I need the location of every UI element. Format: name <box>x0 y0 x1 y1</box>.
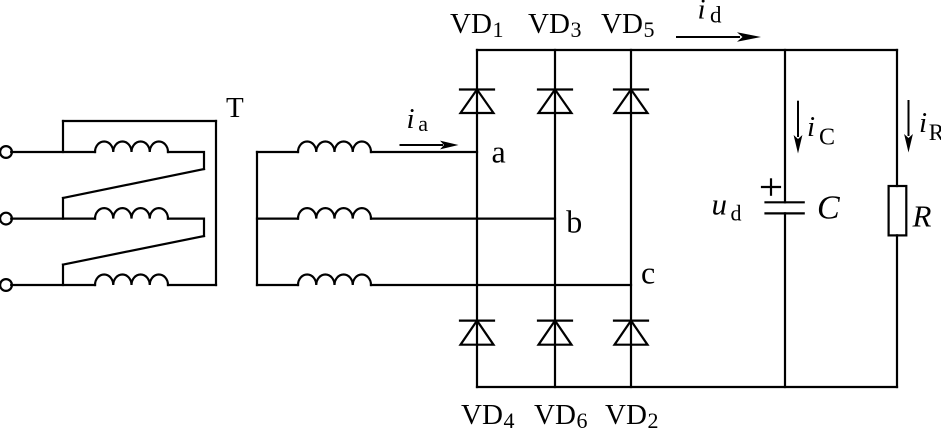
wire phase1 input <box>11 151 95 153</box>
wire phase2 input <box>11 218 95 220</box>
svg-text:VD: VD <box>605 399 647 431</box>
svg-text:C: C <box>819 125 835 151</box>
svg-text:2: 2 <box>648 408 659 432</box>
current arrow i_R <box>904 100 913 153</box>
wire phase b to node b <box>371 218 555 220</box>
svg-text:VD: VD <box>450 8 492 40</box>
secondary winding W2a <box>298 142 371 153</box>
label u_d <box>712 187 742 226</box>
label VD1 <box>450 8 504 42</box>
diode VD4 <box>460 321 494 345</box>
svg-text:u: u <box>712 187 728 222</box>
input terminal 3 <box>0 279 12 291</box>
current arrow i_a <box>400 141 459 150</box>
svg-text:VD: VD <box>534 399 576 431</box>
capacitor C plates <box>766 202 804 213</box>
wire phase3 input <box>11 284 95 286</box>
wire delta vertical 2 <box>62 265 64 285</box>
wire W1a right <box>168 152 204 169</box>
primary winding W1b <box>95 208 168 219</box>
label VD6 <box>534 399 588 432</box>
svg-text:i: i <box>698 0 706 26</box>
wire secondary row3 left <box>257 284 298 286</box>
wire secondary row1 left <box>257 151 298 153</box>
label VD3 <box>528 8 582 42</box>
diode VD2 <box>614 321 648 345</box>
label VD5 <box>601 8 655 42</box>
svg-text:d: d <box>710 2 722 27</box>
wire delta right vertical <box>215 121 217 285</box>
wire top bus <box>477 49 897 51</box>
svg-text:a: a <box>492 134 506 170</box>
svg-text:d: d <box>731 201 742 226</box>
wire W1c right <box>168 284 216 286</box>
wire phase a to node a <box>371 151 477 153</box>
label VD2 <box>605 399 659 432</box>
wire bridge leg 2 <box>554 50 556 387</box>
svg-text:VD: VD <box>528 8 570 40</box>
wire capacitor branch top <box>784 50 786 202</box>
diode VD6 <box>538 321 572 345</box>
svg-text:C: C <box>817 190 840 227</box>
current arrow i_C <box>794 101 803 154</box>
wire delta top-left vertical <box>62 121 64 152</box>
svg-text:c: c <box>641 255 655 291</box>
primary winding W1c <box>95 275 168 286</box>
capacitor plus polarity mark <box>762 179 780 194</box>
primary winding W1a <box>95 142 168 153</box>
diode VD5 <box>614 90 648 114</box>
wire delta diagonal 2 <box>63 236 204 265</box>
label i_R <box>919 107 941 145</box>
wire resistor branch bottom <box>896 235 898 387</box>
wire secondary star bus <box>256 152 258 285</box>
wire secondary row2 left <box>257 218 298 220</box>
svg-text:R: R <box>912 198 932 233</box>
wire bridge leg 3 <box>630 50 632 387</box>
wire delta vertical 1 <box>62 198 64 219</box>
svg-text:6: 6 <box>577 408 588 432</box>
input terminal 1 <box>0 146 12 158</box>
diode VD1 <box>460 90 494 114</box>
wire capacitor branch bottom <box>784 213 786 387</box>
wire phase c to node c <box>371 284 631 286</box>
wire bottom bus <box>477 386 897 388</box>
wire delta top rail <box>63 120 216 122</box>
wire delta diagonal 1 <box>63 169 204 198</box>
current arrow i_d <box>676 32 761 41</box>
label VD4 <box>461 399 515 432</box>
svg-text:VD: VD <box>461 399 503 431</box>
svg-text:R: R <box>929 120 941 145</box>
label i_a <box>407 103 429 136</box>
secondary winding W2b <box>298 208 371 219</box>
input terminal 2 <box>0 213 12 225</box>
svg-text:T: T <box>226 92 244 124</box>
wire bridge leg 1 <box>476 50 478 387</box>
svg-text:b: b <box>566 204 582 240</box>
svg-text:i: i <box>919 107 927 139</box>
wire resistor branch top <box>896 50 898 186</box>
svg-text:5: 5 <box>644 17 655 42</box>
resistor R body <box>889 186 907 235</box>
svg-text:4: 4 <box>504 408 515 432</box>
secondary winding W2c <box>298 275 371 286</box>
svg-text:i: i <box>807 111 815 143</box>
svg-text:3: 3 <box>571 17 582 42</box>
svg-text:1: 1 <box>493 17 504 42</box>
svg-text:a: a <box>418 111 428 136</box>
svg-text:VD: VD <box>601 8 643 40</box>
wire W1b right <box>168 219 204 236</box>
diode VD3 <box>538 90 572 114</box>
svg-text:i: i <box>407 103 415 135</box>
label i_C <box>807 111 835 151</box>
label i_d <box>698 0 723 27</box>
